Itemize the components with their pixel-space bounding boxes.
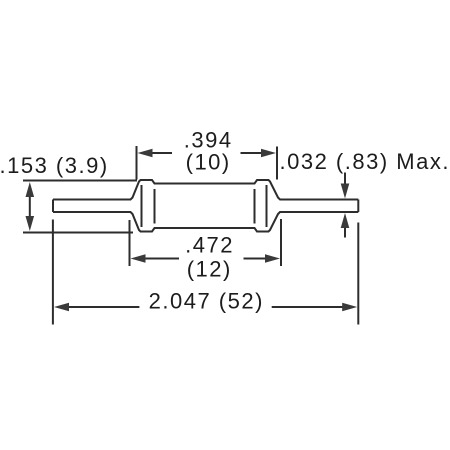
svg-text:(10): (10)	[186, 150, 231, 175]
svg-text:.153 (3.9): .153 (3.9)	[0, 153, 109, 178]
svg-text:(12): (12)	[187, 256, 232, 281]
svg-text:2.047 (52): 2.047 (52)	[149, 288, 264, 313]
svg-text:.472: .472	[185, 232, 234, 257]
svg-text:.032 (.83) Max.: .032 (.83) Max.	[280, 149, 450, 174]
